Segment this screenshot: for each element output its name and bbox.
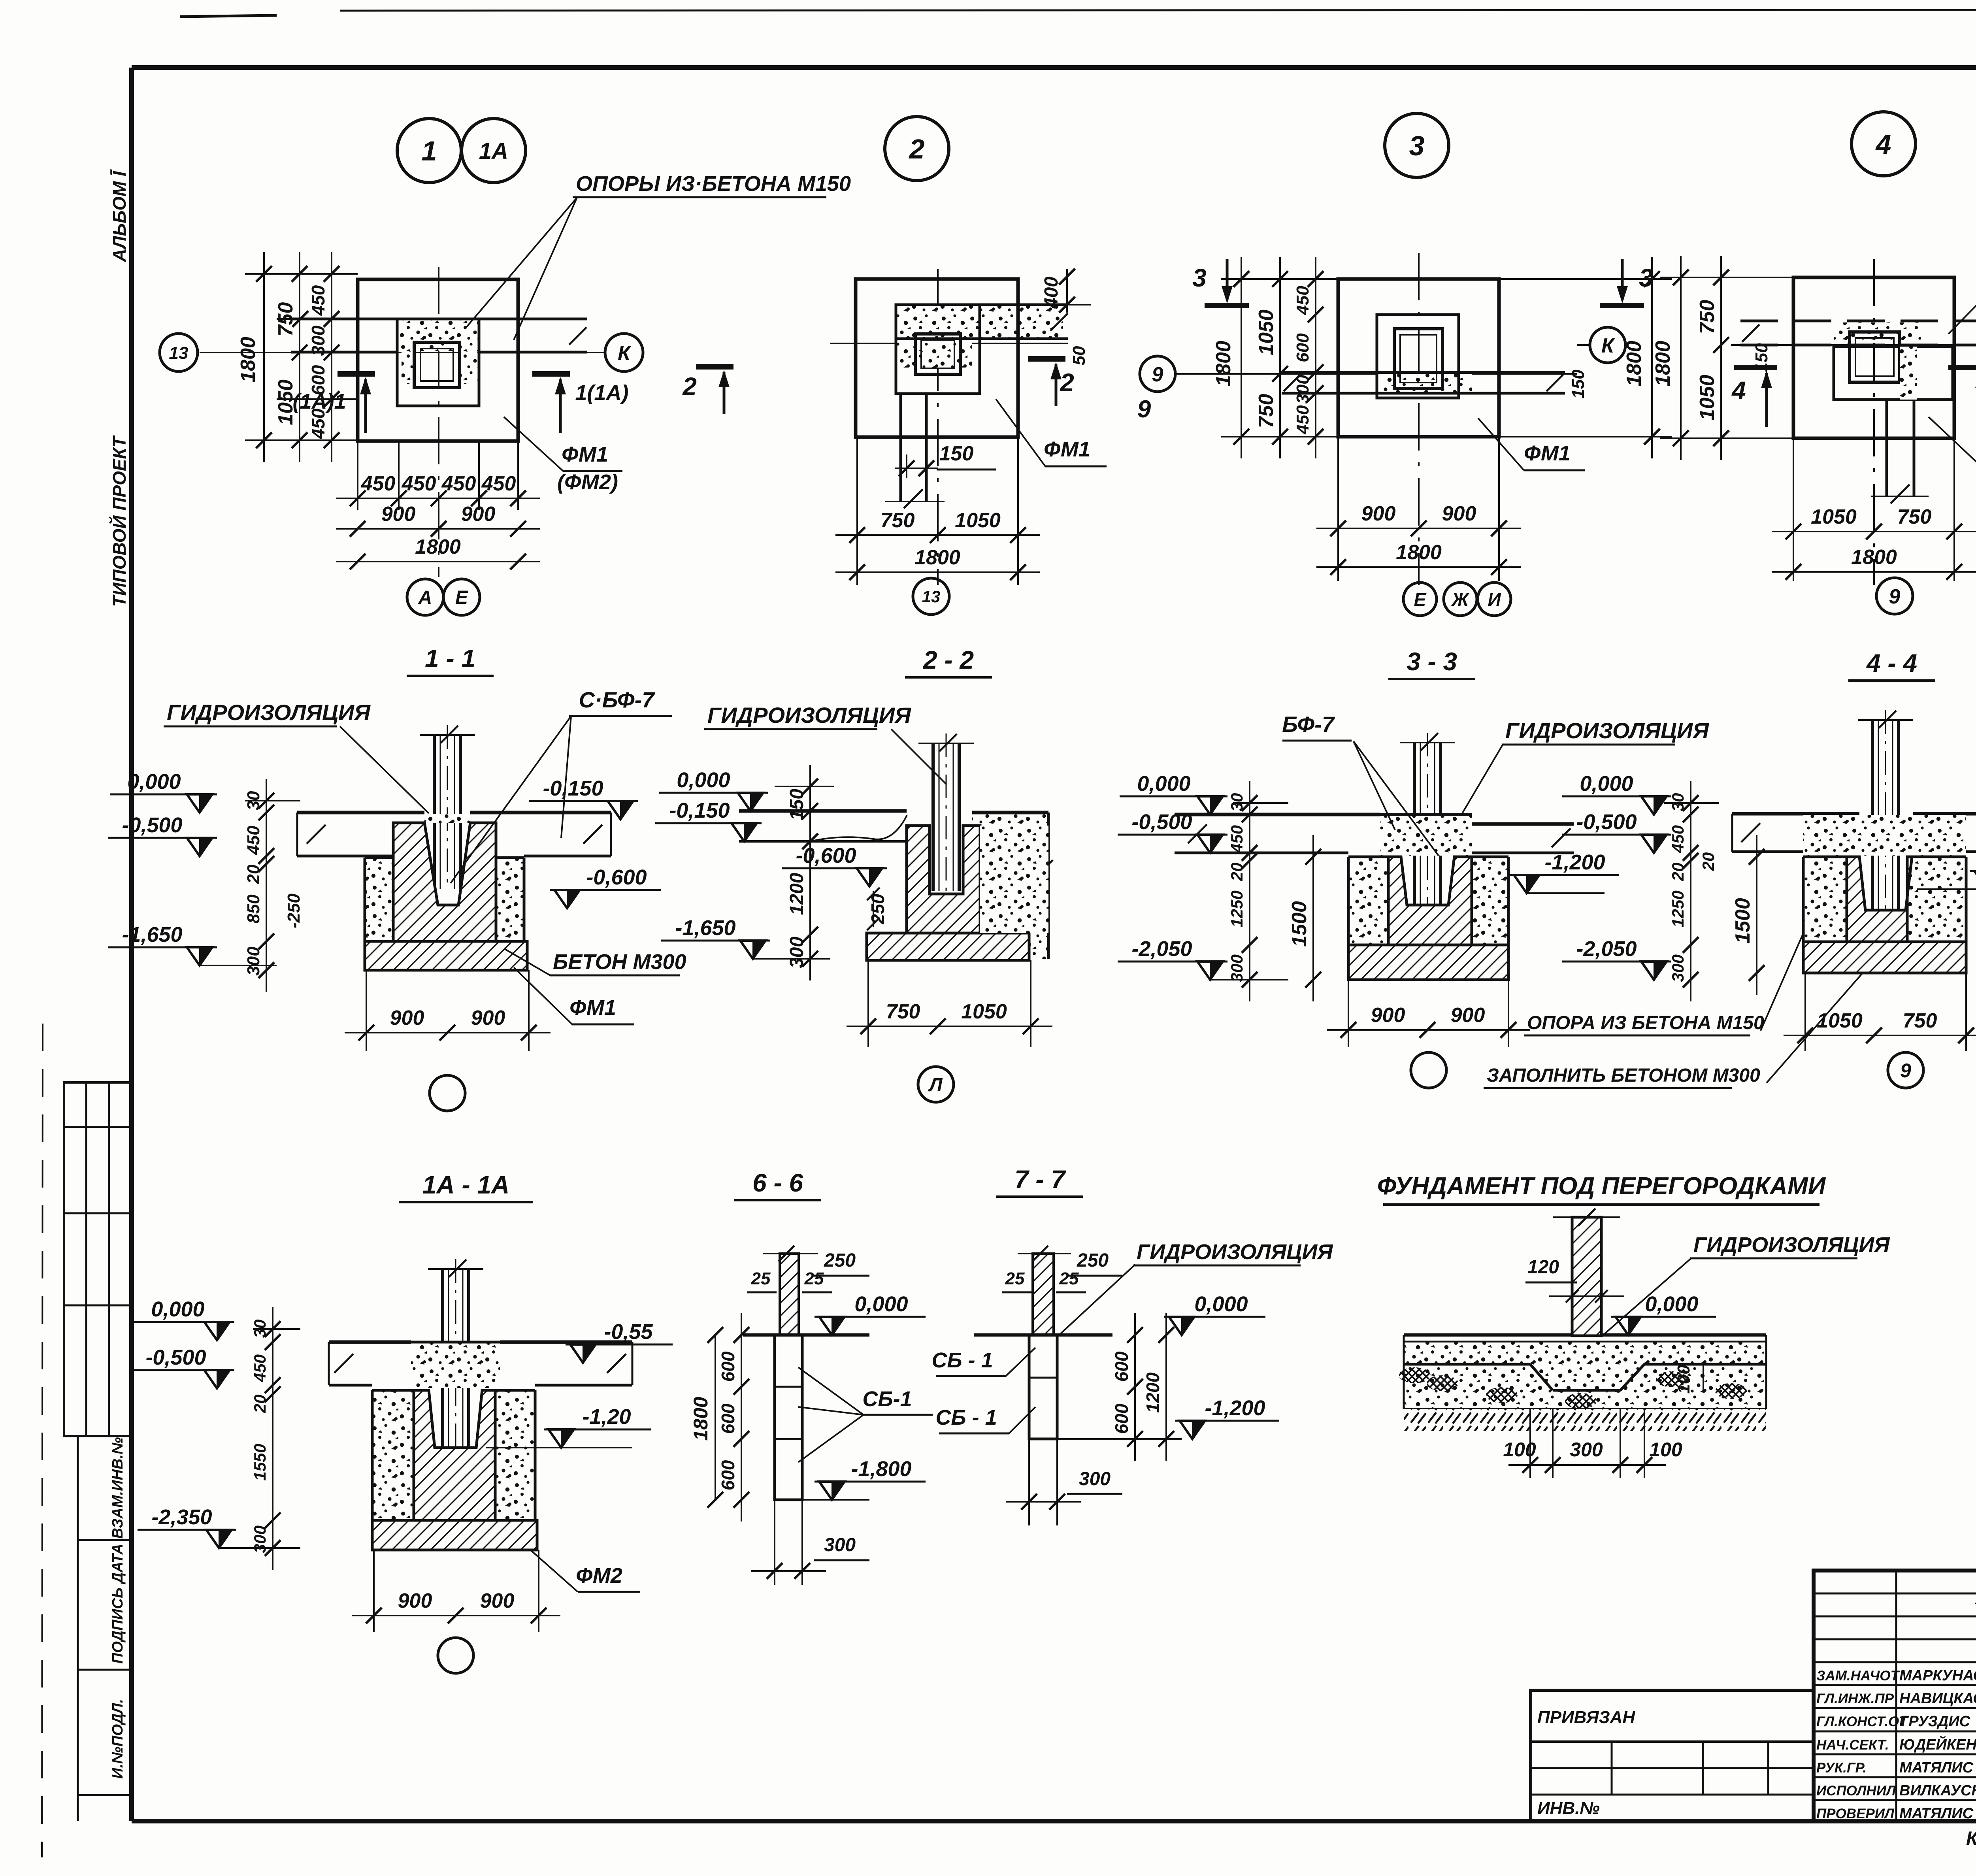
svg-text:1800: 1800 <box>914 546 960 569</box>
svg-text:ФМ1: ФМ1 <box>569 996 616 1020</box>
svg-text:450: 450 <box>308 408 328 439</box>
svg-text:ГРУЗДИС: ГРУЗДИС <box>1899 1713 1970 1730</box>
svg-text:1А - 1А: 1А - 1А <box>422 1171 510 1199</box>
svg-text:900: 900 <box>390 1007 424 1029</box>
svg-text:-1,800: -1,800 <box>851 1457 911 1481</box>
svg-text:2: 2 <box>909 134 925 164</box>
svg-text:ИНВ.№: ИНВ.№ <box>1537 1799 1600 1818</box>
svg-text:4 - 4: 4 - 4 <box>1866 649 1917 677</box>
svg-text:100: 100 <box>1649 1439 1682 1461</box>
svg-text:-0,150: -0,150 <box>669 799 730 822</box>
svg-text:БФ-7: БФ-7 <box>1282 712 1335 737</box>
svg-text:900: 900 <box>398 1589 432 1612</box>
svg-text:-0,55: -0,55 <box>604 1320 653 1344</box>
svg-text:ТИПОВОЙ ПРОЕКТ: ТИПОВОЙ ПРОЕКТ <box>109 435 130 607</box>
svg-text:20: 20 <box>1227 863 1246 882</box>
svg-text:30: 30 <box>244 791 263 810</box>
svg-text:К: К <box>1601 334 1615 357</box>
svg-text:150: 150 <box>786 789 807 820</box>
svg-text:ГЛ.КОНСТ.ОТ: ГЛ.КОНСТ.ОТ <box>1816 1714 1908 1729</box>
svg-text:100: 100 <box>1674 1365 1693 1394</box>
svg-text:150: 150 <box>1752 343 1771 372</box>
svg-text:13: 13 <box>169 343 189 363</box>
svg-text:0,000: 0,000 <box>1194 1292 1248 1316</box>
svg-text:ОПОРА ИЗ БЕТОНА М150: ОПОРА ИЗ БЕТОНА М150 <box>1527 1012 1764 1033</box>
svg-text:300: 300 <box>1293 375 1312 404</box>
svg-text:7 - 7: 7 - 7 <box>1014 1165 1066 1193</box>
svg-text:1250: 1250 <box>1227 890 1246 927</box>
svg-text:1050: 1050 <box>1696 375 1719 420</box>
svg-text:-2,050: -2,050 <box>1131 937 1192 961</box>
svg-text:СБ - 1: СБ - 1 <box>931 1348 993 1372</box>
svg-text:БЕТОН М300: БЕТОН М300 <box>553 950 686 974</box>
svg-text:1(1А): 1(1А) <box>575 381 628 405</box>
svg-text:1200: 1200 <box>786 873 807 915</box>
svg-text:450: 450 <box>251 1354 269 1382</box>
svg-text:30: 30 <box>1227 793 1246 812</box>
svg-text:2 - 2: 2 - 2 <box>923 646 974 674</box>
svg-text:-0,500: -0,500 <box>1576 810 1637 834</box>
svg-text:300: 300 <box>251 1525 269 1553</box>
svg-text:600: 600 <box>308 365 328 395</box>
svg-text:МАТЯЛИС: МАТЯЛИС <box>1899 1759 1974 1776</box>
svg-text:ЗАМ.НАЧОТ: ЗАМ.НАЧОТ <box>1816 1668 1900 1684</box>
svg-text:25: 25 <box>1059 1269 1079 1288</box>
svg-text:450: 450 <box>402 472 436 495</box>
svg-text:ЗАПОЛНИТЬ БЕТОНОМ М300: ЗАПОЛНИТЬ БЕТОНОМ М300 <box>1487 1065 1760 1086</box>
svg-text:ГИДРОИЗОЛЯЦИЯ: ГИДРОИЗОЛЯЦИЯ <box>707 703 911 728</box>
svg-text:20: 20 <box>1699 852 1718 871</box>
svg-text:300: 300 <box>824 1535 856 1555</box>
svg-text:3: 3 <box>1639 264 1653 292</box>
svg-text:25: 25 <box>751 1269 771 1288</box>
svg-text:250: 250 <box>824 1250 856 1271</box>
svg-text:9: 9 <box>1900 1060 1911 1082</box>
svg-text:450: 450 <box>244 826 263 855</box>
svg-text:900: 900 <box>1442 502 1476 525</box>
svg-text:900: 900 <box>461 503 496 526</box>
svg-text:ПРОВЕРИЛ: ПРОВЕРИЛ <box>1816 1806 1895 1821</box>
svg-text:ВИЛКАУСКАС: ВИЛКАУСКАС <box>1899 1782 1976 1799</box>
svg-text:20: 20 <box>1669 863 1687 882</box>
svg-text:25: 25 <box>804 1269 824 1288</box>
svg-text:ГИДРОИЗОЛЯЦИЯ: ГИДРОИЗОЛЯЦИЯ <box>1137 1240 1333 1264</box>
svg-text:600: 600 <box>1111 1403 1132 1434</box>
svg-text:0,000: 0,000 <box>1645 1292 1698 1316</box>
svg-text:750: 750 <box>1255 394 1278 428</box>
svg-text:900: 900 <box>381 503 416 526</box>
svg-text:ФМ1: ФМ1 <box>1044 437 1090 461</box>
svg-text:-2,350: -2,350 <box>151 1505 212 1529</box>
svg-text:450: 450 <box>441 472 476 495</box>
svg-text:1 - 1: 1 - 1 <box>425 644 475 673</box>
svg-text:450: 450 <box>361 472 396 495</box>
svg-text:0,000: 0,000 <box>1137 772 1190 796</box>
svg-text:25: 25 <box>1005 1269 1025 1288</box>
svg-text:4: 4 <box>1731 376 1746 405</box>
svg-text:ГИДРОИЗОЛЯЦИЯ: ГИДРОИЗОЛЯЦИЯ <box>167 700 371 725</box>
svg-text:600: 600 <box>1293 333 1312 362</box>
svg-text:750: 750 <box>1696 300 1719 334</box>
svg-text:3: 3 <box>1192 264 1207 292</box>
svg-text:20: 20 <box>251 1395 269 1414</box>
svg-text:ПОДПИСЬ ДАТА: ПОДПИСЬ ДАТА <box>109 1544 126 1664</box>
svg-text:-0,500: -0,500 <box>145 1346 206 1369</box>
svg-text:1800: 1800 <box>1851 546 1897 569</box>
svg-text:-0,600: -0,600 <box>586 865 647 889</box>
svg-text:-250: -250 <box>284 893 304 928</box>
svg-text:300: 300 <box>786 937 807 968</box>
svg-text:И: И <box>1488 589 1501 610</box>
svg-text:150: 150 <box>939 442 974 465</box>
svg-text:600: 600 <box>1111 1351 1132 1382</box>
svg-text:850: 850 <box>244 894 263 924</box>
svg-text:300: 300 <box>244 946 263 976</box>
svg-text:13: 13 <box>922 587 941 606</box>
svg-text:0,000: 0,000 <box>151 1297 204 1321</box>
svg-text:И.№ПОДЛ.: И.№ПОДЛ. <box>109 1699 126 1779</box>
svg-text:ФМ1: ФМ1 <box>562 443 608 466</box>
svg-text:300: 300 <box>308 325 328 356</box>
svg-text:750: 750 <box>274 302 297 337</box>
svg-text:ОПОРЫ ИЗ·БЕТОНА М150: ОПОРЫ ИЗ·БЕТОНА М150 <box>576 172 851 196</box>
svg-text:1800: 1800 <box>415 535 461 558</box>
svg-text:30: 30 <box>1669 793 1687 812</box>
svg-text:600: 600 <box>718 1460 738 1490</box>
svg-text:600: 600 <box>718 1403 738 1434</box>
svg-text:1250: 1250 <box>1669 890 1687 927</box>
svg-text:450: 450 <box>308 285 328 316</box>
svg-text:-2,050: -2,050 <box>1576 937 1637 961</box>
svg-text:ВЗАМ.ИНВ.№: ВЗАМ.ИНВ.№ <box>109 1437 126 1539</box>
svg-text:1800: 1800 <box>1652 341 1674 387</box>
svg-text:1050: 1050 <box>274 379 297 425</box>
svg-text:ЮДЕЙКЕНЕ: ЮДЕЙКЕНЕ <box>1899 1735 1976 1753</box>
svg-text:0,000: 0,000 <box>854 1292 908 1316</box>
svg-text:1А: 1А <box>479 138 508 164</box>
svg-text:1800: 1800 <box>237 337 260 383</box>
svg-text:С·БФ-7: С·БФ-7 <box>579 687 656 712</box>
svg-text:РУК.ГР.: РУК.ГР. <box>1816 1760 1867 1776</box>
svg-text:30: 30 <box>251 1320 269 1338</box>
svg-text:450: 450 <box>1227 825 1246 853</box>
svg-text:1200: 1200 <box>1143 1372 1163 1413</box>
svg-text:А: А <box>418 587 432 608</box>
svg-text:900: 900 <box>1361 502 1396 525</box>
svg-text:НАВИЦКАС: НАВИЦКАС <box>1899 1690 1976 1707</box>
svg-text:ФМ1: ФМ1 <box>1524 441 1571 465</box>
svg-text:300: 300 <box>1227 954 1246 982</box>
svg-text:900: 900 <box>471 1007 505 1029</box>
svg-text:МАТЯЛИС: МАТЯЛИС <box>1899 1805 1974 1822</box>
svg-text:1050: 1050 <box>955 509 1001 532</box>
svg-text:1050: 1050 <box>1255 309 1278 355</box>
svg-text:9: 9 <box>1137 396 1151 423</box>
svg-text:-1,200: -1,200 <box>1544 850 1605 874</box>
svg-text:-1,20: -1,20 <box>582 1405 631 1429</box>
svg-text:Ж: Ж <box>1451 589 1470 610</box>
svg-text:750: 750 <box>1903 1009 1937 1032</box>
svg-text:-0,150: -0,150 <box>543 777 603 800</box>
svg-text:300: 300 <box>1570 1439 1603 1461</box>
svg-text:Е: Е <box>1414 589 1427 610</box>
svg-text:120: 120 <box>1527 1257 1559 1278</box>
svg-text:9: 9 <box>1152 363 1163 386</box>
svg-text:ГИДРОИЗОЛЯЦИЯ: ГИДРОИЗОЛЯЦИЯ <box>1693 1233 1890 1257</box>
svg-text:250: 250 <box>1077 1250 1109 1271</box>
svg-text:1500: 1500 <box>1288 901 1311 947</box>
svg-text:450: 450 <box>1293 405 1312 435</box>
svg-text:1800: 1800 <box>1396 541 1442 564</box>
svg-text:300: 300 <box>1669 954 1687 982</box>
svg-text:ФМ2: ФМ2 <box>576 1564 622 1588</box>
svg-text:СБ-1: СБ-1 <box>862 1387 912 1411</box>
svg-text:900: 900 <box>480 1589 515 1612</box>
svg-text:1800: 1800 <box>1212 341 1235 387</box>
svg-text:2: 2 <box>1060 368 1074 397</box>
svg-text:1050: 1050 <box>1817 1009 1863 1032</box>
svg-text:900: 900 <box>1451 1004 1485 1027</box>
svg-text:НАЧ.СЕКТ.: НАЧ.СЕКТ. <box>1816 1737 1889 1753</box>
svg-text:900: 900 <box>1371 1004 1405 1027</box>
svg-text:50: 50 <box>1069 346 1089 365</box>
svg-text:-1,650: -1,650 <box>675 916 735 940</box>
svg-text:1050: 1050 <box>961 1000 1007 1023</box>
svg-text:20: 20 <box>244 864 263 884</box>
svg-text:750: 750 <box>1897 505 1932 528</box>
svg-text:СБ - 1: СБ - 1 <box>935 1406 997 1429</box>
svg-text:-0,500: -0,500 <box>1131 810 1192 834</box>
svg-text:2: 2 <box>682 372 697 401</box>
svg-text:750: 750 <box>886 1000 920 1023</box>
svg-text:(ФМ2): (ФМ2) <box>557 470 618 494</box>
svg-text:Л: Л <box>928 1075 943 1095</box>
svg-text:1800: 1800 <box>1623 341 1646 387</box>
svg-text:ИСПОЛНИЛ: ИСПОЛНИЛ <box>1816 1783 1896 1799</box>
svg-text:3: 3 <box>1409 130 1425 161</box>
svg-text:1800: 1800 <box>690 1397 712 1440</box>
svg-text:0,000: 0,000 <box>677 768 730 792</box>
svg-text:1: 1 <box>422 136 437 166</box>
svg-text:1500: 1500 <box>1731 898 1754 944</box>
svg-text:-1,200: -1,200 <box>1205 1396 1265 1420</box>
svg-text:ГИДРОИЗОЛЯЦИЯ: ГИДРОИЗОЛЯЦИЯ <box>1505 718 1709 743</box>
svg-text:600: 600 <box>718 1351 738 1382</box>
svg-text:4: 4 <box>1875 129 1891 160</box>
svg-text:КОПИРОВАЛА: МИКУТЕНЕ МСа: КОПИРОВАЛА: МИКУТЕНЕ МСа <box>1966 1828 1976 1849</box>
svg-text:450: 450 <box>481 472 516 495</box>
svg-text:150: 150 <box>1569 370 1588 399</box>
svg-text:0,000: 0,000 <box>1580 772 1633 796</box>
svg-text:3 - 3: 3 - 3 <box>1407 647 1457 676</box>
svg-text:Е: Е <box>455 587 469 608</box>
svg-text:6 - 6: 6 - 6 <box>752 1169 803 1197</box>
svg-text:-0,500: -0,500 <box>122 813 182 837</box>
svg-text:0,000: 0,000 <box>127 770 181 794</box>
svg-text:ПРИВЯЗАН: ПРИВЯЗАН <box>1537 1708 1635 1727</box>
svg-text:300: 300 <box>1079 1469 1111 1489</box>
svg-text:-1,650: -1,650 <box>122 923 182 946</box>
svg-text:100: 100 <box>1503 1439 1536 1461</box>
svg-text:9: 9 <box>1889 585 1901 608</box>
svg-text:450: 450 <box>1669 825 1687 853</box>
svg-text:АЛЬБОМ Ī: АЛЬБОМ Ī <box>109 169 130 262</box>
svg-text:750: 750 <box>881 509 915 532</box>
svg-text:ФУНДАМЕНТ ПОД ПЕРЕГОРОДКАМИ: ФУНДАМЕНТ ПОД ПЕРЕГОРОДКАМИ <box>1377 1173 1826 1200</box>
svg-text:1550: 1550 <box>251 1444 269 1480</box>
svg-text:К: К <box>618 342 632 365</box>
svg-text:1050: 1050 <box>1811 505 1857 528</box>
svg-text:400: 400 <box>1041 277 1062 309</box>
svg-text:ГЛ.ИНЖ.ПР: ГЛ.ИНЖ.ПР <box>1816 1691 1894 1706</box>
svg-text:МАРКУНАС: МАРКУНАС <box>1899 1667 1976 1684</box>
svg-text:450: 450 <box>1293 286 1312 315</box>
